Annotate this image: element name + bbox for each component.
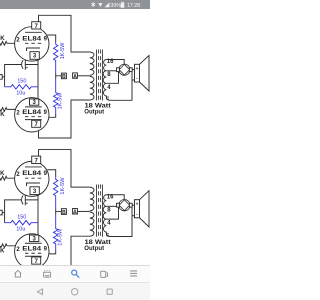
svg-text:39%: 39%: [110, 3, 121, 9]
svg-text:17:28: 17:28: [127, 3, 140, 9]
